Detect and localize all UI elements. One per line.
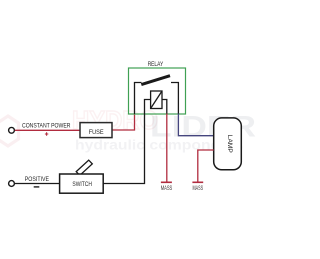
svg-text:LAMP: LAMP: [226, 135, 233, 153]
svg-text:MASS: MASS: [161, 185, 173, 192]
svg-text:MASS: MASS: [193, 185, 204, 192]
svg-text:RELAY: RELAY: [148, 61, 164, 68]
svg-text:POSITIVE: POSITIVE: [25, 177, 49, 183]
svg-text:FUSE: FUSE: [89, 129, 104, 136]
svg-text:SWITCH: SWITCH: [72, 182, 92, 188]
svg-text:CONSTANT POWER: CONSTANT POWER: [22, 124, 71, 130]
